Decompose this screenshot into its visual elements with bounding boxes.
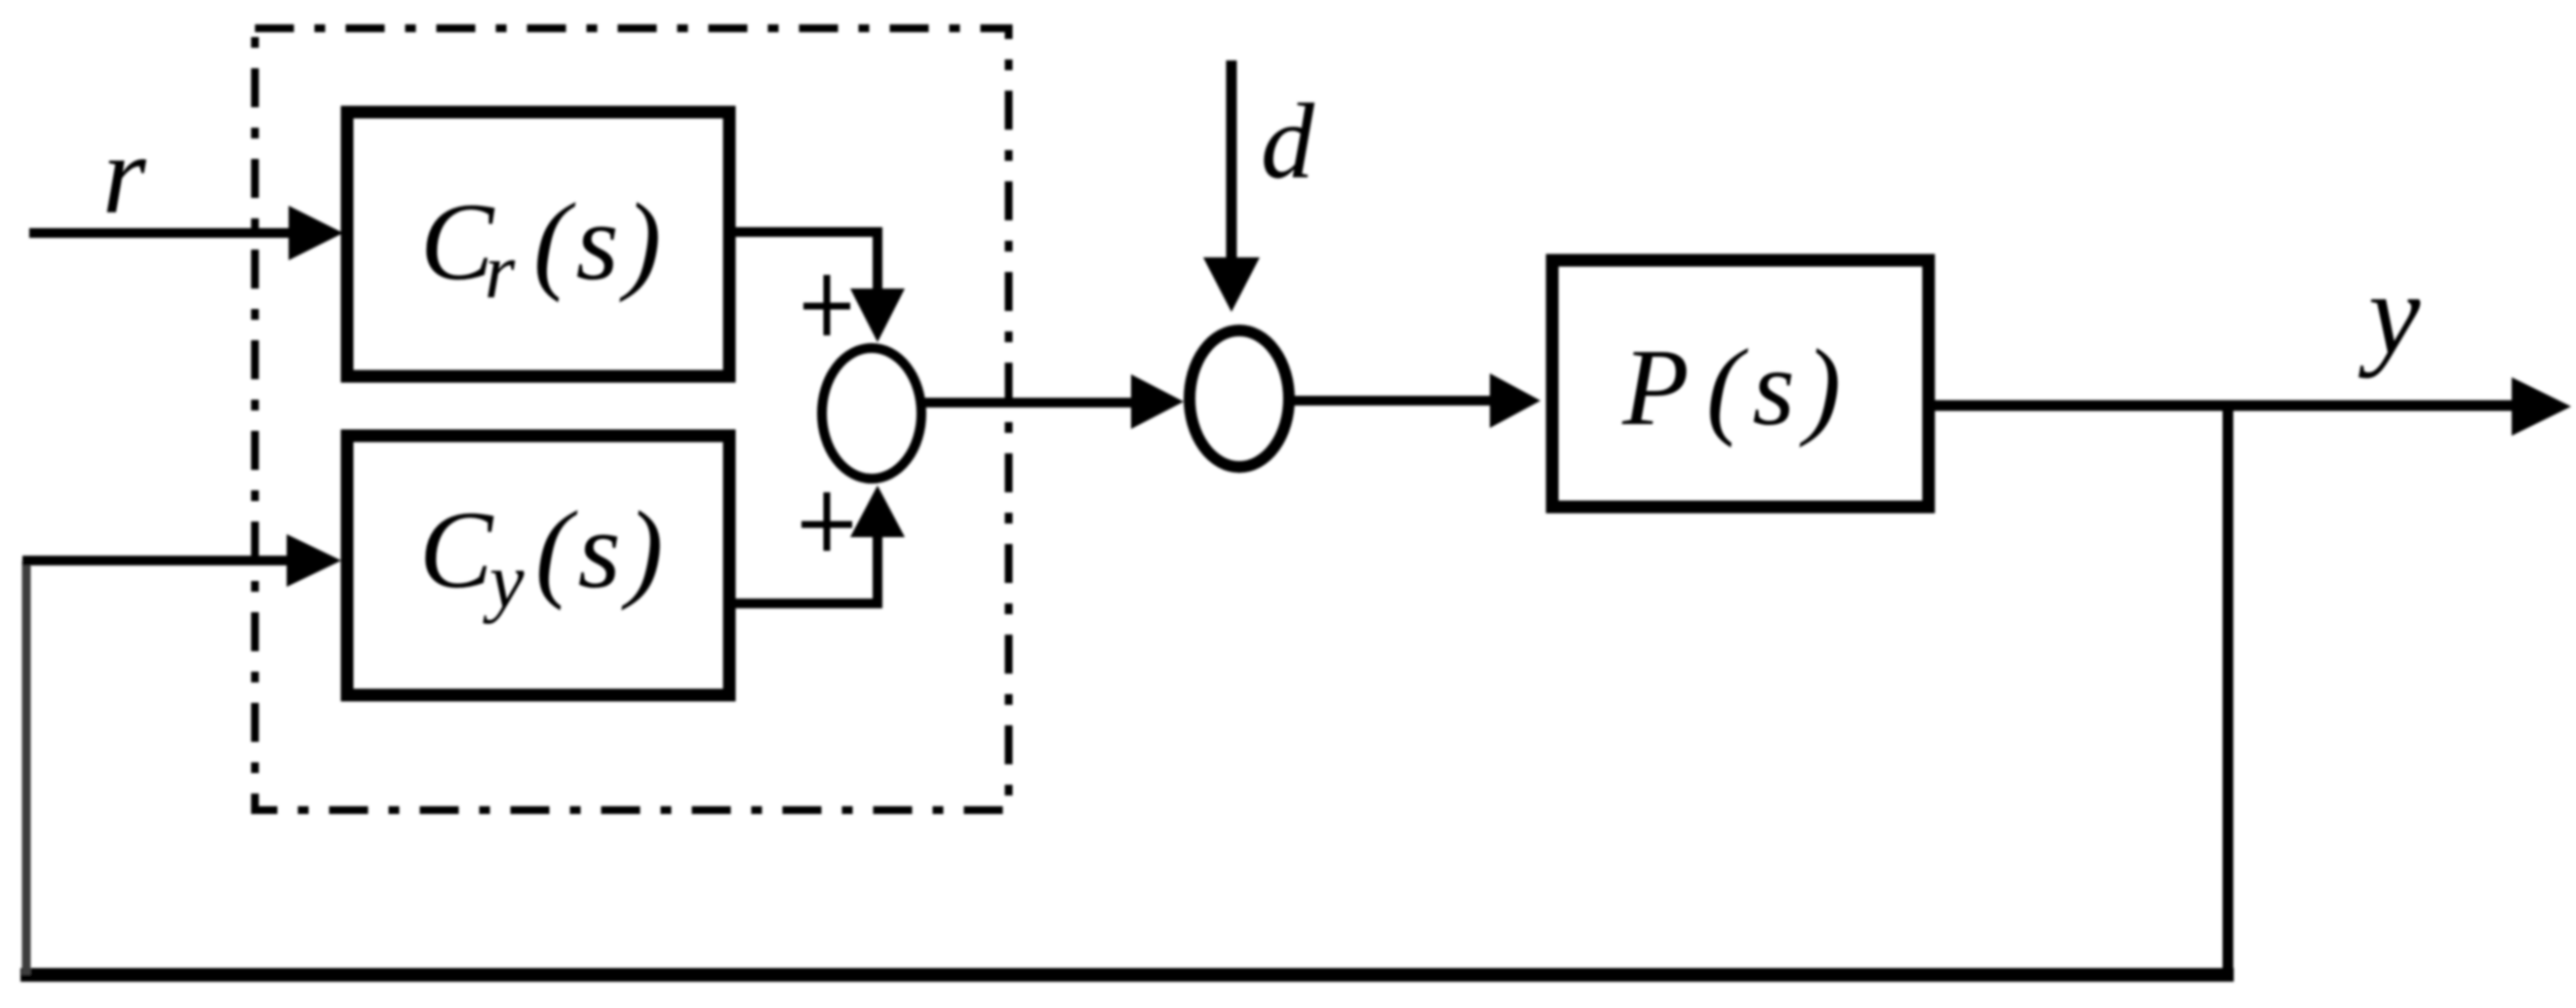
- svg-text:(s): (s): [533, 181, 667, 303]
- summing junction S2: [1190, 330, 1289, 467]
- arrowhead into P: [1490, 373, 1541, 428]
- svg-text:r: r: [485, 229, 516, 315]
- wire S2 to P: [1291, 396, 1492, 406]
- wire Cr output to S1 top: [729, 232, 878, 291]
- wire feedback into Cy: [22, 556, 291, 565]
- svg-text:P: P: [1621, 328, 1689, 448]
- wire P output to y: [1929, 401, 2517, 411]
- wire d disturbance: [1227, 60, 1237, 259]
- svg-text:y: y: [483, 539, 525, 625]
- svg-text:(s): (s): [535, 489, 669, 611]
- summing junction S1: [822, 348, 921, 479]
- svg-text:C: C: [419, 489, 494, 611]
- wire feedback bottom: [20, 968, 2234, 982]
- plus sign bottom: [801, 492, 852, 551]
- wire feedback branch down: [2223, 406, 2234, 968]
- arrowhead into S1 bottom: [850, 485, 905, 537]
- plus sign top: [803, 275, 850, 335]
- arrowhead d into S2: [1203, 257, 1260, 312]
- wire Cy output to S1 bottom: [729, 537, 878, 603]
- svg-text:r: r: [102, 113, 147, 237]
- svg-text:y: y: [2358, 249, 2421, 378]
- wire S1 to S2: [922, 398, 1133, 407]
- arrowhead into S2: [1131, 374, 1184, 429]
- wire r input: [29, 228, 291, 238]
- arrowhead y output: [2512, 377, 2571, 436]
- arrowhead into Cy: [287, 534, 341, 587]
- arrowhead into S1 top: [850, 289, 905, 342]
- arrowhead into Cr: [289, 206, 343, 260]
- block Cy(s): [347, 436, 729, 695]
- svg-text:(s): (s): [1706, 328, 1851, 448]
- block Cr(s): [347, 112, 729, 376]
- controller dash-dot boundary box: [255, 28, 1009, 810]
- wire feedback left up: [22, 561, 31, 975]
- svg-text:d: d: [1261, 82, 1315, 201]
- block P(s): [1552, 260, 1929, 507]
